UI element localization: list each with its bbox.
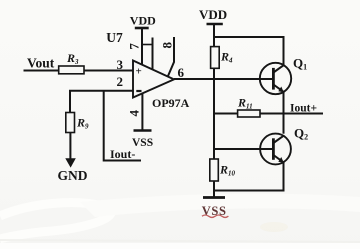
svg-text:8: 8 [159,42,174,49]
wire Q2 emitter to bottom rail [214,162,284,190]
ground GND arrow [58,158,88,183]
svg-text:2: 2 [117,74,124,89]
svg-text:Iout+: Iout+ [290,103,317,115]
svg-text:4: 4 [127,110,142,117]
resistor R9 [66,113,89,133]
transistor Q2 [260,126,308,165]
faint scan line bottom [0,240,360,242]
svg-text:GND: GND [58,168,88,183]
wire R9 to GND arrow [69,133,71,160]
wire R11 / Iout+ rail [214,113,323,115]
faint smudge artifact bottom right [260,222,288,232]
wire VDD branch to Q1 collector [214,37,284,65]
power VDD (left) [130,14,156,29]
svg-text:VSS: VSS [132,137,153,149]
wire Iout- branch [104,91,141,161]
svg-text:7: 7 [127,43,142,50]
resistor R11 [237,96,260,118]
svg-text:VSS: VSS [202,204,227,218]
wire op-amp output pin 6 to Q1 base [174,78,273,80]
power VDD (right) [199,7,227,24]
resistor R4 [211,47,233,69]
resistor R10 [210,159,236,181]
wire Q1 emitter down to Iout+ node [283,92,285,134]
pin 7 lead to VDD [141,28,143,65]
power VSS (bottom) [202,198,229,218]
svg-text:VDD: VDD [199,7,227,22]
pin 4 lead to VSS [141,93,143,130]
op-amp U7 (OP97A) triangle [106,30,189,110]
svg-text:+: + [136,66,142,78]
svg-text:Iout-: Iout- [110,147,135,161]
transistor Q1 [260,56,307,95]
svg-text:Vout: Vout [27,55,55,70]
svg-text:U7: U7 [106,30,123,45]
pin 7 tick and pin 1 lead [142,44,153,46]
svg-text:OP97A: OP97A [152,96,190,110]
wire pin 2 [70,91,133,113]
svg-text:VDD: VDD [130,14,156,28]
wire Vout to pin 3 [24,70,134,72]
watermark band artifact bottom-right [80,194,360,217]
watermark swoosh artifact bottom-left [0,203,111,239]
wire VDD column (x=214) [213,24,215,197]
power VSS (under op-amp) [132,131,153,150]
resistor R3 [59,51,84,74]
svg-text:6: 6 [178,65,185,80]
pin 8 lead [168,37,174,76]
svg-text:3: 3 [117,57,124,72]
wire Q2 base [214,148,273,150]
